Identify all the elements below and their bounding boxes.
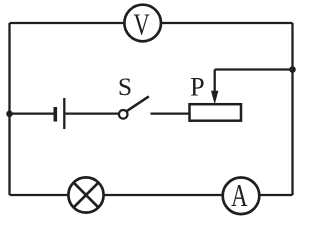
battery plate short (thick)	[53, 107, 57, 122]
lamp cross stroke 1	[74, 183, 99, 208]
switch S pivot circle	[119, 110, 128, 119]
wire switch to potentiometer	[151, 112, 190, 114]
ammeter A circle	[223, 178, 260, 215]
lamp circle	[68, 177, 103, 212]
svg-text:P: P	[190, 73, 204, 102]
node right junction	[289, 66, 296, 73]
wire wiper to right rail	[215, 68, 293, 70]
potentiometer wiper arrowhead	[211, 91, 218, 105]
wire middle branch left (node to battery)	[10, 112, 55, 114]
svg-text:V: V	[134, 6, 151, 41]
lamp cross stroke 2	[74, 183, 99, 208]
svg-text:S: S	[118, 72, 132, 101]
wire left	[8, 23, 10, 195]
potentiometer P body	[190, 104, 242, 121]
svg-text:A: A	[231, 178, 248, 213]
wire bottom	[10, 194, 293, 196]
wire battery to switch	[65, 112, 118, 114]
potentiometer wiper wire vertical	[214, 70, 216, 95]
node left junction	[6, 111, 13, 118]
wire top	[10, 22, 293, 24]
voltmeter V circle	[124, 5, 161, 42]
wire right	[291, 23, 293, 195]
switch S lever	[127, 96, 149, 111]
battery plate long (thin)	[63, 98, 65, 129]
